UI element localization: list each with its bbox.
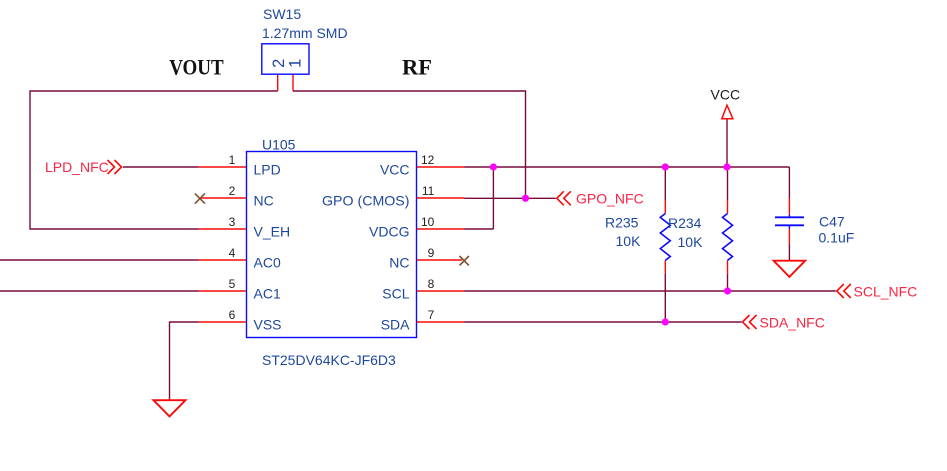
- svg-text:LPD_NFC: LPD_NFC: [45, 159, 109, 175]
- svg-text:12: 12: [421, 153, 435, 167]
- svg-text:10: 10: [421, 215, 435, 229]
- svg-text:8: 8: [428, 277, 435, 291]
- svg-text:VCC: VCC: [380, 161, 410, 177]
- svg-text:VOUT: VOUT: [169, 55, 224, 80]
- svg-text:AC1: AC1: [254, 285, 281, 301]
- svg-text:VDCG: VDCG: [369, 223, 409, 239]
- svg-text:R235: R235: [605, 214, 639, 230]
- svg-text:6: 6: [229, 308, 236, 322]
- svg-text:SCL_NFC: SCL_NFC: [854, 284, 918, 300]
- svg-text:2: 2: [229, 184, 236, 198]
- svg-text:SW15: SW15: [263, 6, 301, 22]
- svg-text:0.1uF: 0.1uF: [819, 230, 855, 246]
- svg-text:11: 11: [422, 184, 435, 198]
- svg-text:R234: R234: [668, 215, 702, 231]
- svg-text:V_EH: V_EH: [254, 223, 291, 239]
- svg-text:1: 1: [287, 59, 305, 68]
- svg-text:SDA: SDA: [381, 316, 410, 332]
- svg-text:U105: U105: [262, 137, 296, 153]
- svg-text:AC0: AC0: [254, 254, 281, 270]
- svg-text:SCL: SCL: [382, 285, 409, 301]
- svg-text:10K: 10K: [616, 233, 642, 249]
- svg-text:LPD: LPD: [254, 161, 281, 177]
- svg-text:NC: NC: [254, 192, 274, 208]
- svg-text:SDA_NFC: SDA_NFC: [760, 315, 825, 331]
- svg-text:GPO (CMOS): GPO (CMOS): [322, 192, 410, 208]
- svg-text:5: 5: [229, 277, 236, 291]
- svg-text:4: 4: [229, 246, 236, 260]
- svg-text:RF: RF: [402, 55, 432, 80]
- svg-text:VSS: VSS: [254, 316, 282, 332]
- svg-text:3: 3: [229, 215, 236, 229]
- svg-text:GPO_NFC: GPO_NFC: [576, 190, 644, 206]
- svg-text:ST25DV64KC-JF6D3: ST25DV64KC-JF6D3: [262, 352, 396, 368]
- svg-text:1.27mm SMD: 1.27mm SMD: [262, 25, 348, 41]
- svg-text:NC: NC: [389, 254, 409, 270]
- svg-text:9: 9: [428, 246, 435, 260]
- svg-text:1: 1: [229, 153, 236, 167]
- svg-text:10K: 10K: [678, 234, 704, 250]
- svg-text:7: 7: [428, 308, 435, 322]
- svg-text:2: 2: [270, 59, 288, 68]
- svg-text:VCC: VCC: [711, 87, 741, 103]
- svg-text:C47: C47: [819, 214, 845, 230]
